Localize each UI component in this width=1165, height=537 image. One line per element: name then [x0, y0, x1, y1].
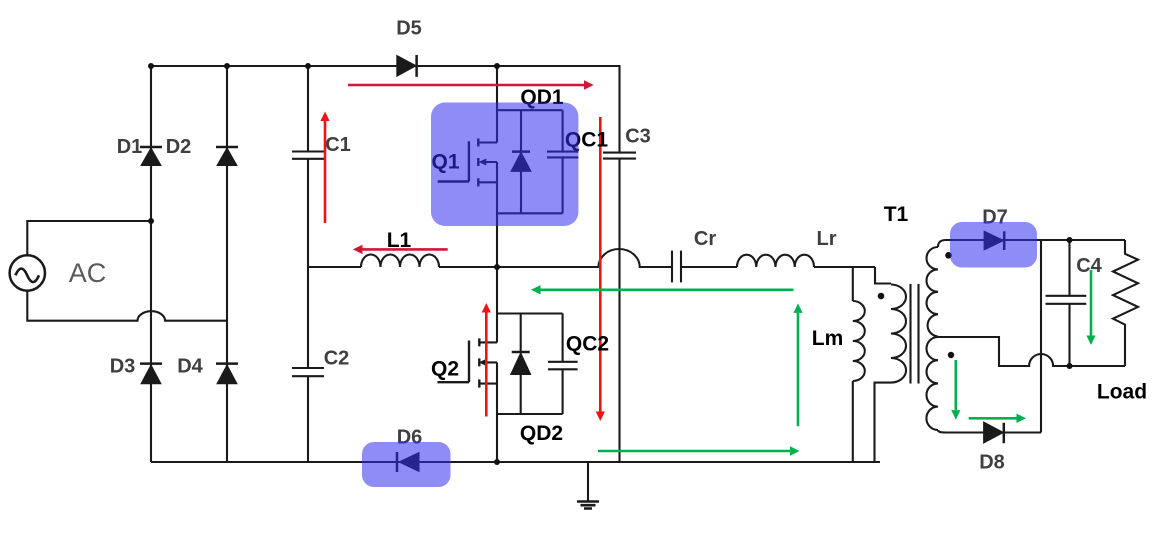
svg-text:QC2: QC2 — [566, 333, 609, 356]
svg-text:C1: C1 — [325, 134, 351, 156]
svg-text:C3: C3 — [625, 126, 651, 148]
svg-text:Lr: Lr — [817, 228, 837, 250]
svg-text:C2: C2 — [324, 348, 350, 370]
svg-text:D1: D1 — [117, 136, 143, 158]
svg-text:Cr: Cr — [694, 228, 716, 250]
svg-text:T1: T1 — [884, 203, 909, 226]
svg-text:D2: D2 — [166, 136, 192, 158]
svg-text:Lm: Lm — [812, 327, 844, 350]
svg-text:Q2: Q2 — [431, 358, 459, 381]
svg-text:L1: L1 — [387, 229, 412, 252]
svg-text:D4: D4 — [177, 356, 203, 378]
svg-text:AC: AC — [69, 258, 107, 288]
svg-text:C4: C4 — [1076, 255, 1102, 277]
svg-text:D3: D3 — [110, 356, 136, 378]
svg-text:Load: Load — [1097, 381, 1147, 404]
svg-text:D8: D8 — [979, 452, 1005, 474]
svg-text:D5: D5 — [396, 18, 422, 40]
svg-text:QD2: QD2 — [520, 422, 563, 445]
